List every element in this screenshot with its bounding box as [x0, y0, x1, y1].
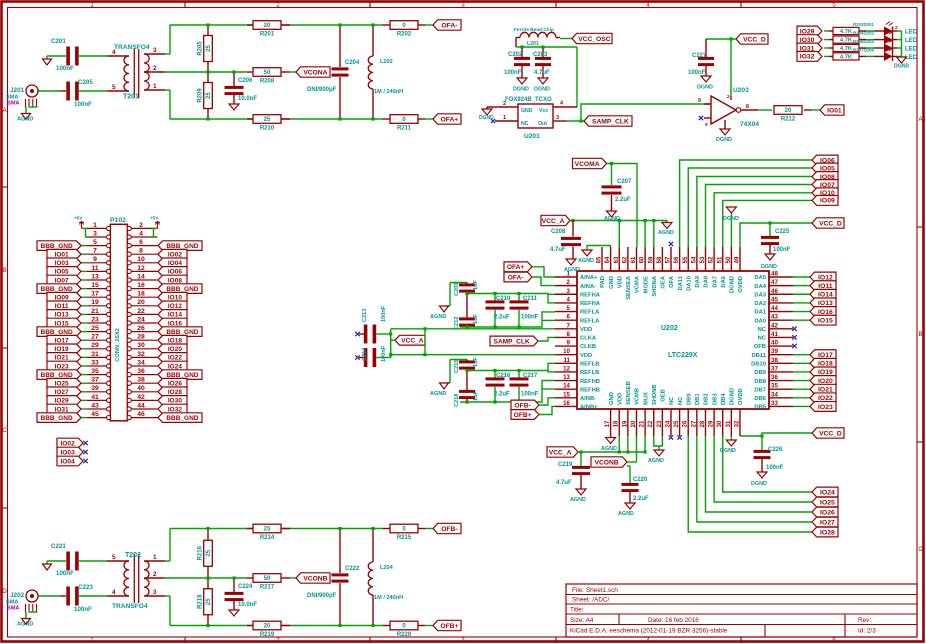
svg-text:17: 17: [605, 420, 611, 427]
svg-text:R204D202: R204D202: [853, 31, 875, 36]
svg-text:U202: U202: [661, 325, 678, 332]
svg-text:50: 50: [726, 256, 732, 263]
svg-text:24: 24: [665, 420, 671, 427]
svg-text:_OEB: _OEB: [661, 389, 667, 406]
svg-text:74X04: 74X04: [740, 121, 759, 128]
svg-text:14: 14: [563, 383, 570, 390]
svg-text:40: 40: [137, 385, 145, 392]
svg-text:44: 44: [137, 402, 145, 409]
svg-text:C225: C225: [775, 229, 790, 235]
svg-text:R218: R218: [198, 594, 204, 609]
svg-text:10.0nF: 10.0nF: [238, 96, 257, 102]
svg-text:NC: NC: [758, 336, 767, 342]
svg-text:58: 58: [657, 256, 663, 263]
svg-text:Rev:: Rev:: [858, 617, 871, 624]
svg-text:L202: L202: [380, 59, 393, 65]
svg-text:IO15: IO15: [818, 317, 833, 324]
svg-text:100nF: 100nF: [766, 465, 784, 471]
svg-text:12: 12: [563, 365, 570, 372]
svg-text:100nF: 100nF: [74, 101, 92, 108]
svg-text:TRANSFO4: TRANSFO4: [112, 603, 148, 610]
svg-text:GND: GND: [609, 392, 615, 405]
svg-text:22: 22: [137, 308, 145, 315]
svg-text:DB6: DB6: [754, 396, 766, 402]
svg-text:T201: T201: [123, 94, 139, 101]
svg-text:VDD: VDD: [580, 327, 592, 333]
svg-text:R201: R201: [260, 32, 275, 38]
svg-text:4.7uF: 4.7uF: [534, 70, 550, 76]
svg-text:38: 38: [137, 377, 145, 384]
svg-text:R203D201: R203D201: [853, 22, 875, 27]
svg-text:30: 30: [137, 342, 145, 349]
svg-text:REFHA: REFHA: [580, 292, 601, 298]
svg-text:LTC229X: LTC229X: [668, 352, 698, 359]
svg-text:OFA-: OFA-: [508, 274, 524, 281]
svg-text:C212: C212: [454, 317, 460, 330]
svg-text:1: 1: [153, 83, 157, 90]
svg-text:26: 26: [137, 325, 145, 332]
svg-text:AGND: AGND: [648, 458, 664, 464]
svg-text:C227: C227: [692, 53, 707, 59]
svg-text:25: 25: [206, 549, 212, 556]
svg-text:1uF: 1uF: [473, 390, 479, 401]
svg-text:R211: R211: [397, 126, 412, 132]
svg-text:28: 28: [137, 334, 145, 341]
svg-text:48: 48: [771, 271, 778, 278]
svg-text:VCC_OSC: VCC_OSC: [578, 36, 611, 43]
svg-text:34: 34: [771, 391, 778, 398]
svg-text:C223: C223: [78, 584, 93, 591]
svg-text:C224: C224: [238, 584, 253, 590]
svg-text:DB10: DB10: [751, 362, 766, 368]
svg-text:25: 25: [264, 527, 271, 533]
svg-text:U203: U203: [733, 87, 749, 94]
svg-text:P102: P102: [110, 217, 126, 224]
svg-text:9: 9: [698, 98, 701, 104]
svg-text:LED: LED: [905, 29, 918, 36]
svg-text:32: 32: [137, 351, 145, 358]
svg-text:IO23: IO23: [818, 404, 833, 411]
svg-text:27: 27: [91, 334, 99, 341]
svg-text:100nF: 100nF: [504, 70, 522, 76]
svg-text:C216: C216: [496, 373, 511, 379]
svg-text:VCMA: VCMA: [635, 275, 641, 293]
svg-text:13: 13: [91, 273, 99, 280]
svg-text:16: 16: [137, 282, 145, 289]
svg-text:SAMP_CLK: SAMP_CLK: [592, 118, 629, 125]
svg-text:DB5: DB5: [754, 405, 766, 411]
svg-text:100nF: 100nF: [521, 392, 539, 398]
svg-text:IO02: IO02: [60, 440, 75, 447]
svg-text:Date: 16 feb 2016: Date: 16 feb 2016: [648, 617, 699, 624]
svg-text:62: 62: [622, 256, 628, 263]
svg-text:1: 1: [153, 554, 157, 561]
svg-text:IO25: IO25: [820, 499, 835, 506]
svg-text:A: A: [3, 108, 7, 114]
svg-text:18: 18: [614, 420, 620, 427]
svg-text:DNI/900pF: DNI/900pF: [307, 87, 337, 93]
svg-text:C214: C214: [362, 347, 368, 361]
svg-text:OVDD: OVDD: [738, 276, 744, 293]
svg-text:SENSEA: SENSEA: [626, 275, 632, 300]
svg-text:A: A: [918, 117, 922, 123]
svg-text:5: 5: [93, 239, 97, 246]
svg-text:60: 60: [640, 256, 646, 263]
svg-text:C219: C219: [558, 462, 573, 468]
svg-text:C221: C221: [51, 543, 66, 550]
svg-text:Vcc: Vcc: [539, 108, 548, 114]
svg-text:VDD: VDD: [617, 276, 623, 288]
svg-text:R219: R219: [260, 632, 275, 638]
svg-text:5: 5: [705, 122, 708, 128]
svg-text:DB0: DB0: [686, 393, 692, 405]
svg-text:55: 55: [683, 256, 689, 263]
svg-text:MODE: MODE: [643, 276, 649, 294]
svg-text:_OEA: _OEA: [661, 275, 667, 293]
svg-text:FOX924B_TCXO: FOX924B_TCXO: [505, 97, 552, 103]
svg-text:56: 56: [674, 256, 680, 263]
svg-text:DA11: DA11: [678, 275, 684, 290]
svg-text:19: 19: [622, 420, 628, 427]
svg-text:2: 2: [503, 101, 506, 107]
svg-text:IO32: IO32: [800, 54, 815, 61]
svg-text:C203: C203: [533, 52, 548, 58]
svg-text:47: 47: [771, 279, 778, 286]
svg-text:25: 25: [264, 117, 271, 123]
svg-text:12: 12: [137, 265, 145, 272]
svg-text:20: 20: [264, 23, 271, 29]
svg-text:2: 2: [139, 222, 143, 229]
svg-text:Title:: Title:: [570, 607, 584, 614]
svg-text:46: 46: [771, 288, 778, 295]
svg-text:8: 8: [746, 104, 749, 110]
svg-text:VCC_A: VCC_A: [401, 338, 424, 345]
svg-text:Sheet: /ADC/: Sheet: /ADC/: [572, 597, 610, 604]
svg-text:PAD: PAD: [600, 276, 606, 288]
svg-text:NC: NC: [678, 396, 684, 405]
svg-text:NC: NC: [521, 121, 529, 127]
svg-text:C: C: [918, 547, 923, 553]
svg-text:NC: NC: [758, 327, 767, 333]
svg-text:DGND: DGND: [730, 276, 736, 293]
svg-text:100nF: 100nF: [773, 247, 791, 253]
svg-text:DGND: DGND: [723, 216, 739, 222]
svg-text:DA3: DA3: [754, 292, 766, 298]
svg-text:4.7K: 4.7K: [840, 38, 853, 44]
svg-text:C: C: [2, 428, 7, 434]
svg-text:MUX: MUX: [643, 392, 649, 405]
svg-text:40: 40: [771, 340, 778, 347]
svg-text:R217: R217: [260, 585, 275, 591]
svg-text:C211: C211: [523, 296, 538, 302]
svg-text:33: 33: [771, 400, 778, 407]
svg-text:AGND: AGND: [17, 622, 33, 628]
svg-text:DB8: DB8: [754, 379, 766, 385]
svg-text:DA1: DA1: [754, 310, 766, 316]
svg-text:1M / 240nH: 1M / 240nH: [374, 89, 403, 95]
svg-text:7: 7: [93, 248, 97, 255]
svg-text:R209: R209: [198, 88, 204, 103]
svg-text:2.2uF: 2.2uF: [494, 392, 510, 398]
svg-text:9: 9: [93, 256, 97, 263]
svg-text:R210: R210: [260, 126, 275, 132]
svg-text:DGND: DGND: [894, 64, 910, 70]
svg-text:J201: J201: [10, 87, 25, 94]
svg-text:29: 29: [709, 420, 715, 427]
svg-text:5: 5: [112, 84, 116, 91]
svg-text:C202: C202: [508, 52, 523, 58]
svg-text:VCONB: VCONB: [303, 575, 327, 582]
svg-text:21: 21: [91, 308, 99, 315]
svg-text:R215: R215: [397, 535, 412, 541]
svg-text:B: B: [918, 332, 922, 338]
svg-text:7: 7: [567, 322, 571, 329]
svg-text:C209: C209: [454, 283, 460, 296]
svg-text:3: 3: [556, 115, 559, 121]
svg-text:DA10: DA10: [686, 276, 692, 291]
svg-text:DA5: DA5: [754, 275, 766, 281]
svg-text:SAMP_CLK: SAMP_CLK: [493, 338, 530, 345]
svg-text:AINB+: AINB+: [580, 405, 598, 411]
svg-text:32: 32: [734, 420, 740, 427]
svg-text:61: 61: [631, 256, 637, 263]
svg-text:DB7: DB7: [754, 387, 766, 393]
svg-text:AGND: AGND: [604, 216, 620, 222]
svg-text:20: 20: [631, 420, 637, 427]
svg-text:35: 35: [771, 383, 778, 390]
svg-text:63: 63: [614, 256, 620, 263]
svg-text:6: 6: [567, 314, 571, 321]
svg-text:43: 43: [771, 314, 778, 321]
svg-text:AGND: AGND: [658, 230, 674, 236]
svg-text:23: 23: [657, 420, 663, 427]
svg-text:3: 3: [153, 589, 157, 596]
svg-text:17: 17: [91, 291, 99, 298]
svg-text:VDD: VDD: [580, 353, 592, 359]
svg-text:45: 45: [91, 411, 99, 418]
svg-text:OFB-: OFB-: [441, 526, 457, 533]
svg-text:9: 9: [567, 340, 571, 347]
svg-text:R208: R208: [260, 79, 275, 85]
svg-text:IO28: IO28: [820, 529, 835, 536]
svg-text:DA9: DA9: [695, 275, 701, 287]
svg-text:11: 11: [563, 357, 570, 364]
svg-text:R216: R216: [198, 545, 204, 560]
svg-text:IO01: IO01: [827, 107, 842, 114]
svg-text:IO03: IO03: [60, 449, 75, 456]
svg-text:REFLA: REFLA: [580, 318, 600, 324]
svg-text:100nF: 100nF: [381, 305, 387, 322]
svg-text:NC: NC: [669, 396, 675, 405]
svg-text:BBB_GND: BBB_GND: [41, 415, 73, 422]
svg-text:CLKA: CLKA: [580, 336, 597, 342]
svg-text:22: 22: [648, 420, 654, 427]
svg-text:31: 31: [91, 351, 99, 358]
svg-text:DGND: DGND: [534, 87, 550, 93]
svg-text:OFB+: OFB+: [440, 623, 458, 630]
svg-text:100nF: 100nF: [56, 570, 74, 577]
svg-text:L204: L204: [380, 565, 394, 571]
svg-text:1uF: 1uF: [473, 279, 479, 290]
svg-text:4.7uF: 4.7uF: [550, 247, 566, 253]
svg-text:42: 42: [771, 322, 778, 329]
svg-text:OVDD: OVDD: [738, 388, 744, 405]
svg-text:26: 26: [683, 420, 689, 427]
svg-text:C215: C215: [454, 360, 460, 373]
svg-text:65: 65: [597, 256, 603, 263]
svg-text:42: 42: [137, 394, 145, 401]
svg-text:100nF: 100nF: [74, 606, 92, 613]
svg-text:GND: GND: [609, 276, 615, 289]
svg-text:4.7K: 4.7K: [840, 46, 853, 52]
svg-text:AINB-: AINB-: [580, 396, 596, 402]
svg-text:25: 25: [674, 420, 680, 427]
svg-text:3: 3: [153, 47, 157, 54]
svg-text:C205: C205: [78, 79, 93, 86]
svg-text:C206: C206: [238, 78, 253, 84]
svg-text:Size: A4: Size: A4: [570, 617, 594, 624]
svg-text:54: 54: [691, 256, 697, 263]
svg-text:DB2: DB2: [704, 393, 710, 405]
svg-text:D: D: [2, 589, 7, 595]
svg-text:23: 23: [91, 316, 99, 323]
svg-text:33: 33: [91, 359, 99, 366]
svg-text:+5V: +5V: [150, 216, 159, 221]
svg-text:C210: C210: [496, 296, 511, 302]
svg-text:DGND: DGND: [730, 388, 736, 405]
svg-text:SMA: SMA: [7, 606, 19, 612]
svg-text:50: 50: [264, 576, 271, 582]
svg-text:REFLB: REFLB: [580, 362, 599, 368]
svg-text:2: 2: [895, 25, 898, 31]
svg-text:2: 2: [153, 65, 157, 72]
svg-text:37: 37: [91, 377, 99, 384]
svg-text:R220: R220: [397, 632, 412, 638]
svg-text:REFLA: REFLA: [580, 310, 600, 316]
svg-text:18: 18: [137, 291, 145, 298]
svg-text:J202: J202: [10, 592, 25, 599]
svg-text:Out: Out: [538, 121, 547, 127]
svg-text:5: 5: [567, 305, 571, 312]
svg-text:2: 2: [153, 571, 157, 578]
svg-text:U201: U201: [524, 133, 540, 140]
svg-text:T202: T202: [125, 552, 141, 559]
svg-text:OFA+: OFA+: [441, 116, 459, 123]
svg-text:100nF: 100nF: [521, 315, 539, 321]
svg-text:29: 29: [91, 342, 99, 349]
svg-text:20: 20: [264, 624, 271, 630]
svg-text:38: 38: [771, 357, 778, 364]
svg-text:CLKB: CLKB: [580, 344, 596, 350]
svg-text:36: 36: [137, 368, 145, 375]
svg-text:4: 4: [112, 589, 116, 596]
svg-text:OFB-: OFB-: [515, 402, 531, 409]
svg-text:44: 44: [771, 305, 778, 312]
svg-text:VCOMA: VCOMA: [575, 161, 600, 168]
svg-text:SHDNB: SHDNB: [652, 384, 658, 405]
svg-text:41: 41: [771, 331, 778, 338]
svg-text:8: 8: [567, 331, 571, 338]
svg-text:+5V: +5V: [74, 216, 83, 221]
svg-text:25: 25: [206, 45, 212, 52]
svg-text:REFHA: REFHA: [580, 301, 601, 307]
svg-text:15: 15: [91, 282, 99, 289]
svg-text:DGND: DGND: [697, 85, 713, 91]
svg-text:DB4: DB4: [721, 393, 727, 405]
svg-text:4.7K: 4.7K: [840, 29, 853, 35]
svg-text:100nF: 100nF: [56, 65, 74, 72]
svg-text:100nF: 100nF: [381, 345, 387, 362]
svg-text:16: 16: [563, 400, 570, 407]
svg-text:13: 13: [563, 374, 570, 381]
svg-text:AGND: AGND: [601, 446, 617, 452]
svg-text:OFA+: OFA+: [507, 264, 525, 271]
svg-text:1uF: 1uF: [473, 313, 479, 324]
svg-text:C226: C226: [768, 447, 783, 453]
svg-text:37: 37: [771, 365, 778, 372]
svg-text:IO04: IO04: [60, 458, 75, 465]
svg-text:2: 2: [567, 279, 571, 286]
svg-text:43: 43: [91, 402, 99, 409]
svg-text:1M / 240nH: 1M / 240nH: [374, 595, 403, 601]
svg-text:LED: LED: [905, 46, 918, 53]
svg-text:11: 11: [91, 265, 98, 272]
svg-text:OFB+: OFB+: [514, 412, 532, 419]
svg-text:C218: C218: [454, 394, 460, 407]
svg-text:4.7uF: 4.7uF: [556, 480, 572, 486]
svg-text:DB9: DB9: [754, 370, 766, 376]
svg-text:CONN_26X2: CONN_26X2: [115, 328, 121, 362]
svg-text:SENSEB: SENSEB: [626, 381, 632, 405]
svg-text:20: 20: [785, 108, 792, 114]
svg-text:C201: C201: [51, 38, 66, 45]
svg-text:45: 45: [771, 296, 778, 303]
svg-text:DA2: DA2: [754, 301, 766, 307]
svg-text:AGND: AGND: [564, 267, 580, 273]
svg-text:AINA-: AINA-: [580, 284, 596, 290]
svg-text:VCMB: VCMB: [635, 388, 641, 405]
svg-text:DGND: DGND: [479, 115, 494, 121]
svg-text:64: 64: [605, 256, 611, 263]
svg-text:VCC_D: VCC_D: [743, 36, 766, 43]
svg-text:25: 25: [91, 325, 99, 332]
svg-text:35: 35: [91, 368, 99, 375]
svg-text:AGND: AGND: [578, 258, 594, 264]
svg-text:Id: 2/3: Id: 2/3: [858, 628, 876, 635]
svg-text:24: 24: [137, 316, 145, 323]
svg-text:TRANSFO4: TRANSFO4: [114, 44, 150, 51]
svg-text:8: 8: [139, 248, 143, 255]
svg-text:SMA: SMA: [7, 101, 19, 107]
svg-text:27: 27: [691, 420, 697, 427]
svg-text:BBB_GND: BBB_GND: [166, 415, 198, 422]
svg-text:57: 57: [666, 256, 672, 263]
svg-text:IO26: IO26: [820, 509, 835, 516]
svg-text:VDD: VDD: [617, 393, 623, 405]
svg-text:DGND: DGND: [720, 448, 736, 454]
svg-text:DGND: DGND: [716, 137, 732, 143]
svg-text:52: 52: [709, 256, 715, 263]
svg-text:AGND: AGND: [430, 391, 446, 397]
svg-text:2: 2: [727, 94, 730, 100]
svg-text:DA6: DA6: [721, 275, 727, 287]
svg-text:KiCad E.D.A. eeschema (2012-0: KiCad E.D.A. eeschema (2012-01-19 BZR 32…: [570, 628, 728, 635]
svg-text:14: 14: [137, 273, 145, 280]
svg-text:R207D204: R207D204: [853, 47, 875, 52]
svg-text:REFLB: REFLB: [580, 370, 599, 376]
svg-text:19: 19: [91, 299, 99, 306]
svg-text:C204: C204: [345, 60, 360, 66]
